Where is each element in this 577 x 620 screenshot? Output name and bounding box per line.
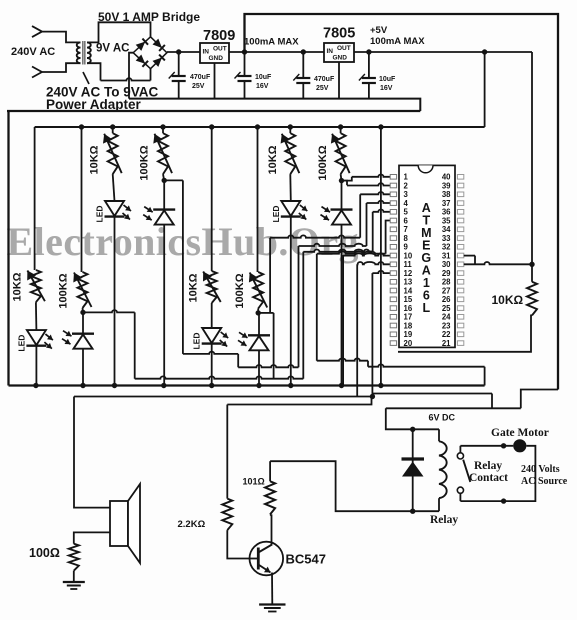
svg-text:AC Source: AC Source [521,476,568,487]
svg-text:10: 10 [404,251,413,260]
svg-text:2: 2 [404,181,409,190]
svg-text:7809: 7809 [203,28,235,44]
svg-text:240 Volts: 240 Volts [521,464,560,475]
svg-text:9: 9 [404,243,409,252]
svg-text:17: 17 [404,313,413,322]
svg-text:27: 27 [442,286,451,295]
svg-text:100mA MAX: 100mA MAX [370,36,425,47]
svg-text:10KΩ: 10KΩ [267,145,279,174]
svg-text:8: 8 [404,234,409,243]
svg-text:101Ω: 101Ω [243,477,265,487]
svg-text:15: 15 [404,295,413,304]
svg-text:100mA MAX: 100mA MAX [244,37,299,48]
svg-text:LED: LED [271,206,281,223]
svg-text:20: 20 [404,339,413,348]
svg-text:39: 39 [442,181,451,190]
svg-text:10KΩ: 10KΩ [188,273,200,302]
svg-text:10uF: 10uF [255,74,272,81]
svg-text:7: 7 [404,225,408,234]
svg-text:Relay: Relay [430,514,458,526]
svg-text:+5V: +5V [370,25,388,36]
svg-text:40: 40 [442,173,451,182]
svg-text:Power Adapter: Power Adapter [46,97,142,112]
svg-text:1: 1 [404,173,409,182]
svg-text:470uF: 470uF [190,74,211,81]
svg-text:18: 18 [404,321,413,330]
svg-text:16: 16 [404,304,413,313]
svg-text:240V AC: 240V AC [11,46,55,58]
svg-text:22: 22 [442,330,451,339]
svg-text:LED: LED [16,335,26,352]
svg-text:30: 30 [442,260,451,269]
svg-text:100KΩ: 100KΩ [139,145,151,180]
svg-text:7805: 7805 [323,26,355,42]
svg-text:10uF: 10uF [379,76,396,83]
svg-text:11: 11 [404,260,413,269]
svg-text:10KΩ: 10KΩ [492,293,524,307]
svg-text:4: 4 [404,199,409,208]
svg-text:3: 3 [404,190,409,199]
svg-text:33: 33 [442,234,451,243]
svg-text:100Ω: 100Ω [29,546,60,560]
svg-text:31: 31 [442,251,451,260]
svg-text:23: 23 [442,321,451,330]
svg-text:LED: LED [192,333,202,350]
svg-text:12: 12 [404,269,413,278]
svg-text:35: 35 [442,216,451,225]
svg-text:GND: GND [333,55,348,62]
svg-text:470uF: 470uF [314,76,335,83]
svg-text:Gate Motor: Gate Motor [491,427,549,439]
svg-text:5: 5 [404,208,409,217]
svg-text:6: 6 [404,216,409,225]
svg-text:14: 14 [404,286,413,295]
svg-text:6V DC: 6V DC [429,413,456,423]
svg-text:21: 21 [442,339,451,348]
svg-text:Relay: Relay [474,460,502,472]
svg-text:OUT: OUT [213,46,227,53]
svg-text:28: 28 [442,278,451,287]
svg-text:25V: 25V [192,83,205,90]
svg-text:32: 32 [442,243,451,252]
svg-text:37: 37 [442,199,451,208]
svg-text:36: 36 [442,208,451,217]
svg-text:2.2KΩ: 2.2KΩ [178,519,206,530]
svg-text:9V AC: 9V AC [96,43,129,55]
svg-text:10KΩ: 10KΩ [12,272,24,301]
svg-text:16V: 16V [380,85,393,92]
svg-text:19: 19 [404,330,413,339]
svg-text:24: 24 [442,313,451,322]
svg-text:38: 38 [442,190,451,199]
svg-text:100KΩ: 100KΩ [58,273,70,308]
svg-text:16V: 16V [256,83,269,90]
svg-text:29: 29 [442,269,451,278]
svg-text:25: 25 [442,304,451,313]
svg-text:GND: GND [209,55,224,62]
svg-text:26: 26 [442,295,451,304]
svg-text:Contact: Contact [469,472,508,484]
svg-text:100KΩ: 100KΩ [234,273,246,308]
svg-text:LED: LED [95,206,105,223]
svg-text:13: 13 [404,278,413,287]
svg-text:L: L [422,301,430,315]
svg-text:100KΩ: 100KΩ [317,145,329,180]
svg-text:34: 34 [442,225,451,234]
svg-text:25V: 25V [316,85,329,92]
svg-text:BC547: BC547 [286,552,326,567]
svg-text:10KΩ: 10KΩ [89,145,101,174]
svg-text:OUT: OUT [337,45,351,52]
